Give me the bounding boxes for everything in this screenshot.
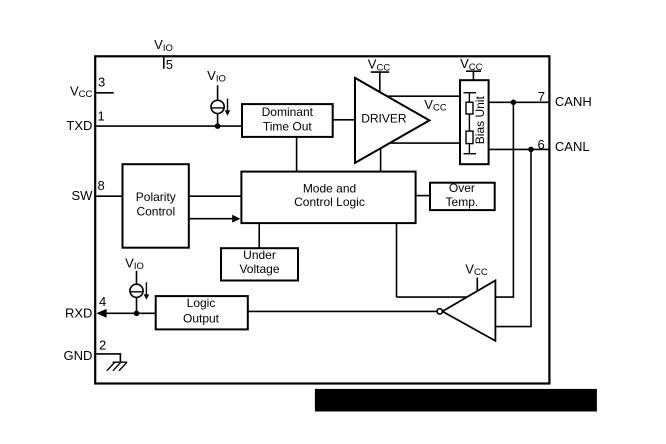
wire driver to bias top — [378, 95, 460, 97]
arrow of current source I1 — [225, 99, 231, 116]
svg-text:Voltage: Voltage — [239, 262, 279, 276]
wire Polarity Control to Mode logic with arrow — [189, 215, 241, 223]
svg-text:4: 4 — [99, 294, 106, 309]
wire SW — [96, 195, 122, 197]
pin 3 stub wire — [96, 92, 113, 94]
svg-text:5: 5 — [166, 57, 173, 72]
VCC tick receiver — [476, 278, 478, 294]
wire CANH — [489, 101, 550, 103]
arrow of current source I2 — [144, 282, 150, 300]
wire Dominant Time Out to DRIVER — [333, 119, 355, 121]
wire TXD — [96, 125, 242, 127]
wire Polarity Control to Mode logic — [189, 195, 242, 197]
svg-text:8: 8 — [98, 178, 105, 193]
junction dot on RXD — [134, 311, 140, 317]
block Dominant Time Out — [242, 104, 333, 137]
svg-text:Time Out: Time Out — [263, 120, 313, 134]
resistor R2 — [466, 131, 473, 144]
wire GND stub — [96, 354, 120, 362]
svg-text:Output: Output — [183, 311, 220, 325]
current source I2 — [130, 284, 143, 297]
VCC tick bias unit — [466, 71, 481, 80]
svg-text:Logic: Logic — [187, 296, 216, 310]
svg-text:Temp.: Temp. — [446, 195, 479, 209]
svg-text:Control: Control — [136, 205, 175, 219]
svg-text:RXD: RXD — [65, 305, 92, 320]
svg-text:Dominant: Dominant — [262, 105, 314, 119]
wire CANH to receiver — [397, 102, 514, 297]
chip outer border — [95, 56, 549, 383]
wire Logic Output to receiver bubble — [248, 310, 437, 312]
block Logic Output — [156, 296, 248, 329]
redacted label bar — [315, 389, 597, 412]
wire Mode logic to Over Temp — [416, 195, 430, 197]
svg-text:1: 1 — [98, 109, 105, 124]
wire CANL — [489, 148, 550, 150]
junction dot CANL — [528, 147, 534, 153]
svg-text:SW: SW — [71, 188, 93, 203]
svg-text:3: 3 — [98, 75, 105, 90]
svg-text:CANL: CANL — [555, 139, 590, 154]
wire current source I1 to TXD — [217, 114, 219, 127]
receiver inverter bubble — [437, 309, 442, 314]
block Bias Unit — [460, 80, 489, 164]
block Under Voltage — [221, 248, 298, 281]
block Polarity Control — [123, 164, 189, 248]
current source I1 — [211, 100, 224, 113]
wire Mode logic to Under Voltage — [258, 223, 260, 248]
wire RXD with arrow — [96, 309, 155, 318]
block Mode and Control Logic — [241, 172, 415, 224]
VCC tick driver — [371, 72, 389, 95]
svg-text:2: 2 — [99, 337, 106, 352]
svg-text:Control Logic: Control Logic — [294, 195, 365, 209]
wire Mode logic to receiver — [396, 223, 398, 297]
wire CANL to receiver — [496, 149, 532, 326]
wire driver to Mode logic — [380, 138, 382, 172]
svg-text:GND: GND — [64, 348, 93, 363]
wire current source I2 to RXD — [136, 297, 138, 313]
pin 5 tick — [163, 57, 165, 68]
svg-text:Under: Under — [243, 248, 276, 262]
wire driver to bias bottom — [381, 142, 460, 144]
wire VIO to current source I1 — [217, 85, 219, 100]
wire Dominant Time Out to Mode logic — [296, 137, 298, 172]
resistor chain inside bias unit — [464, 93, 477, 154]
junction dot CANH — [511, 100, 517, 106]
op-amp DRIVER — [355, 78, 429, 163]
svg-text:Polarity: Polarity — [136, 190, 176, 204]
svg-text:DRIVER: DRIVER — [361, 111, 407, 125]
wire VIO to current source I2 — [136, 271, 138, 285]
svg-text:Over: Over — [449, 181, 475, 195]
block Over Temp — [430, 181, 495, 210]
resistor R1 — [466, 102, 473, 114]
svg-text:Mode and: Mode and — [303, 182, 356, 196]
svg-text:CANH: CANH — [555, 94, 592, 109]
ground symbol — [107, 362, 127, 371]
svg-text:TXD: TXD — [66, 118, 92, 133]
svg-text:Bias Unit: Bias Unit — [473, 96, 487, 145]
op-amp receiver — [442, 281, 495, 341]
junction dot on TXD — [215, 123, 221, 129]
